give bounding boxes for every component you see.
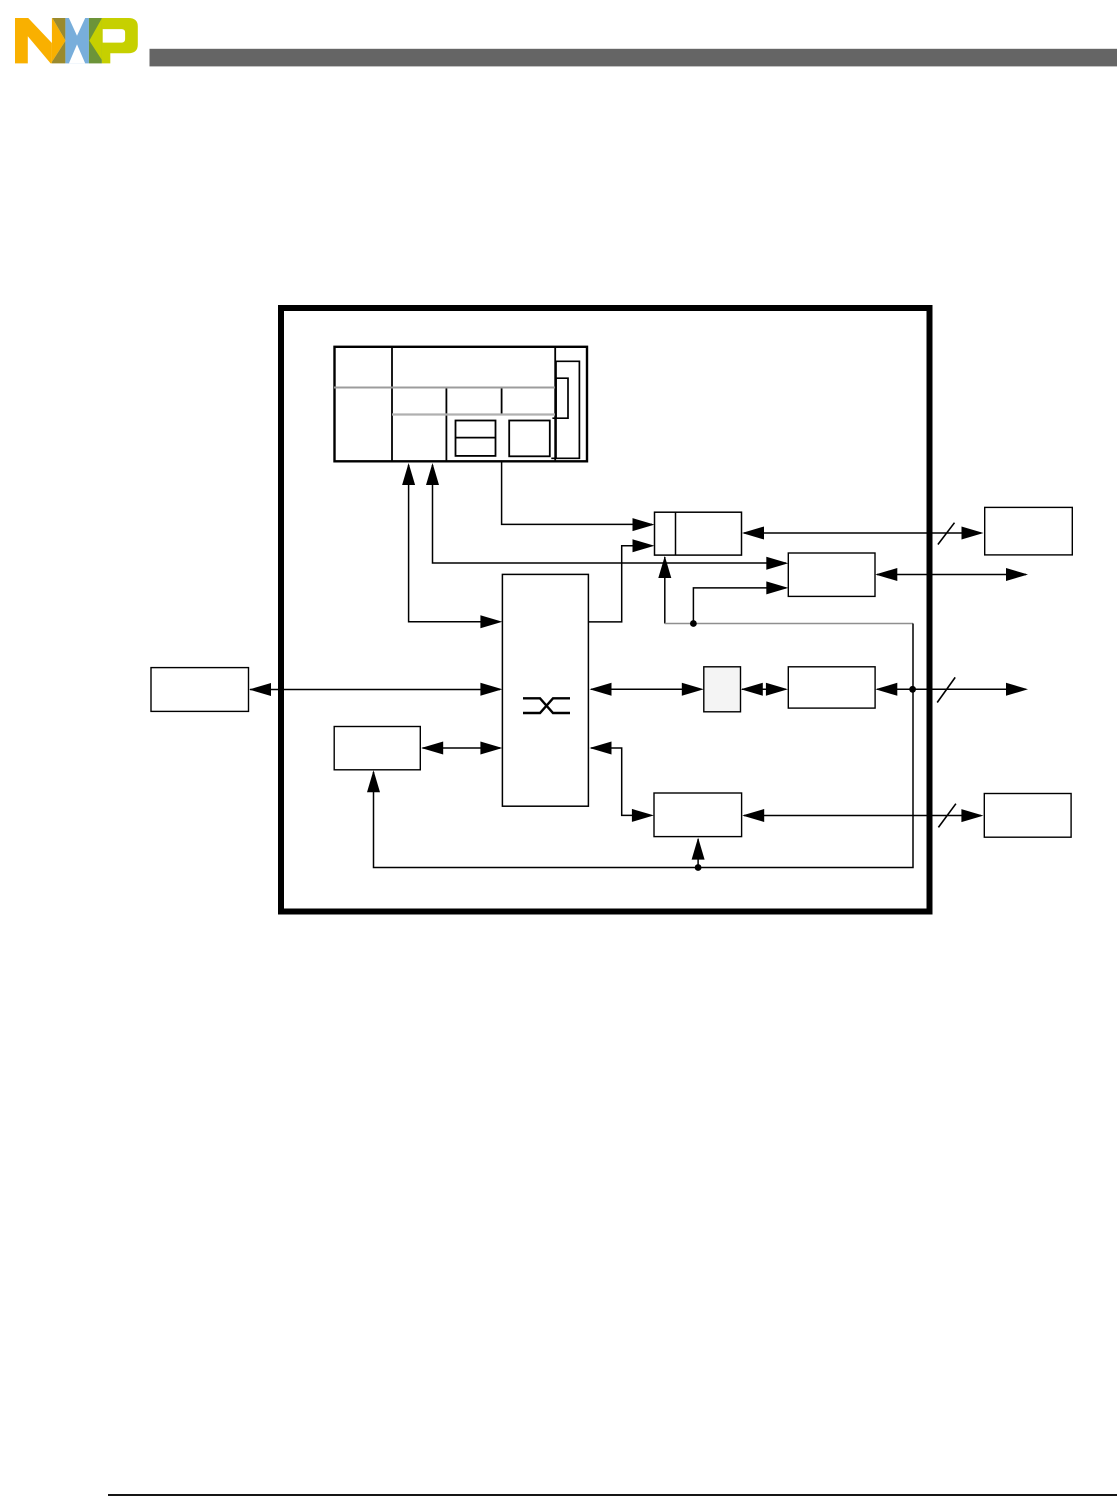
wire W8 box E to box F double arrow <box>742 688 786 690</box>
junction dot on gray segment <box>690 620 697 627</box>
header gray bar <box>150 49 1117 67</box>
wire W6 box A to external box C <box>744 532 981 534</box>
junction dot W8 riser crossing <box>909 686 916 693</box>
core block tall right rect <box>551 361 579 458</box>
wire W3 core block down to box A upper input <box>502 461 652 524</box>
box F peripheral <box>788 667 875 708</box>
bus slash W8 <box>937 677 955 702</box>
wire W11 box H to external box I <box>744 815 981 817</box>
wire W4 crossbar right to box A lower input <box>588 546 652 622</box>
core block outer box <box>335 347 588 462</box>
core block vertical divider 1 <box>391 347 393 461</box>
core block small right rect <box>552 378 568 418</box>
core block sub-box S2 <box>509 421 550 457</box>
wire W5 branch into box H bottom <box>697 839 699 868</box>
wire W7 box B to external pin <box>877 574 1026 576</box>
wire W5 branch to box B lower input <box>693 588 786 624</box>
core block sub-box S1 <box>456 421 496 456</box>
footer rule <box>108 1494 1117 1496</box>
box G lower-left peripheral <box>334 727 420 770</box>
box B peripheral <box>788 553 875 596</box>
core block vertical divider 3 <box>501 388 503 415</box>
wire W5 gray horizontal segment <box>665 623 913 625</box>
wire W8 left box to crossbar <box>250 689 500 691</box>
external box C top-right <box>985 507 1073 555</box>
core block vertical divider 2 <box>445 388 447 462</box>
wire W5 feedback net riser into box A bottom <box>664 557 666 624</box>
wire W2 core block to box B upper input <box>433 465 787 563</box>
core block vertical divider 4 <box>554 347 556 461</box>
NXP logo <box>15 18 138 63</box>
crossbar switch symbol <box>523 698 570 713</box>
wire W1 core block to crossbar <box>409 465 500 622</box>
box E small buffer <box>704 667 741 712</box>
left external box <box>151 668 249 712</box>
wire W8 box F to external pin <box>877 688 1026 690</box>
core block gray horizontal divider 1 <box>334 387 556 389</box>
bus slash W11 <box>938 804 956 828</box>
crossbar switch box <box>502 574 588 806</box>
core block gray horizontal divider 2 <box>392 413 555 415</box>
junction dot bottom run <box>695 864 702 871</box>
box H bottom peripheral <box>654 793 742 837</box>
box A (dual-section peripheral) <box>655 512 742 555</box>
external box I bottom-right <box>984 794 1071 838</box>
wire W10 crossbar to box H <box>591 748 651 815</box>
bus slash W6 <box>938 523 955 545</box>
wire W5 right vertical and bottom run <box>374 624 914 868</box>
outer chip boundary box <box>281 308 930 912</box>
wire W9 box G to crossbar double arrow <box>423 747 501 749</box>
wire W8 crossbar to box E <box>591 688 701 690</box>
